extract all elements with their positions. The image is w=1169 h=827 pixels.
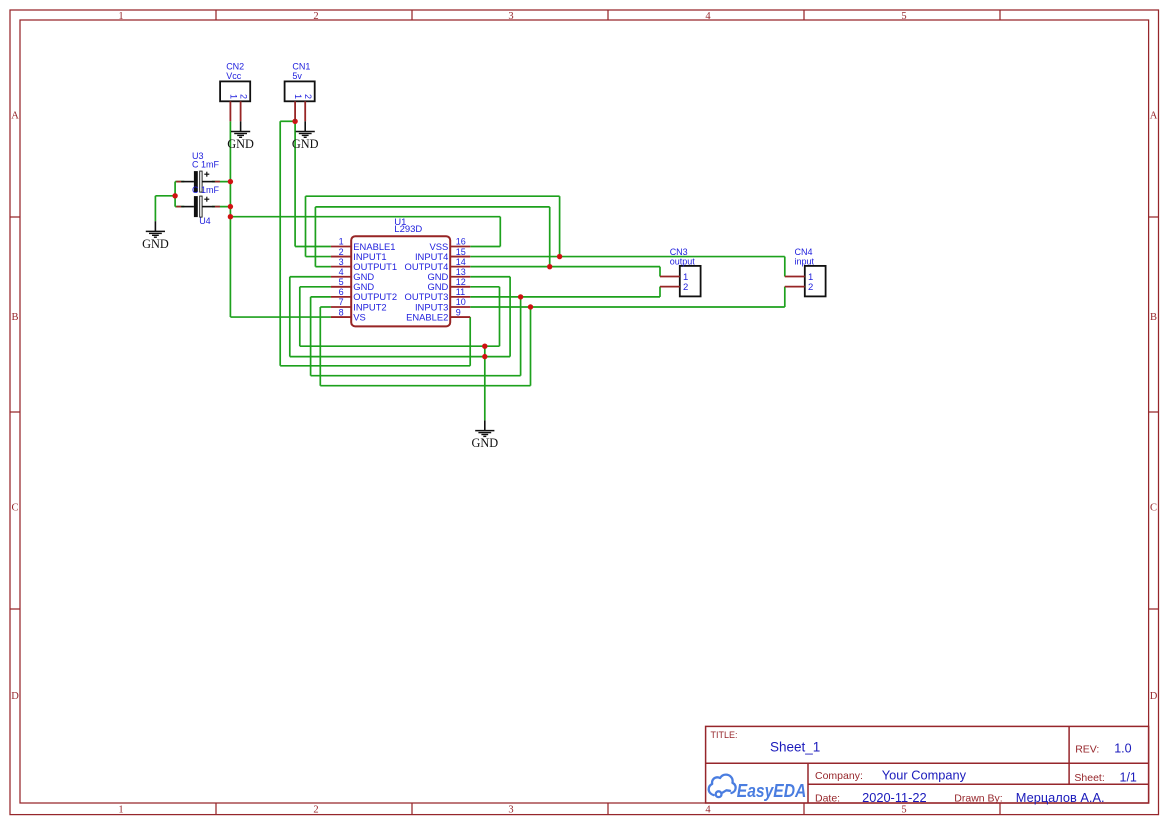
svg-text:9: 9 [456,307,461,317]
svg-text:3: 3 [339,257,344,267]
svg-text:CN2: CN2 [226,61,244,71]
svg-text:2: 2 [239,94,249,99]
svg-text:7: 7 [339,297,344,307]
svg-text:4: 4 [705,11,711,22]
svg-text:2: 2 [303,94,313,99]
svg-text:14: 14 [456,257,466,267]
svg-text:Company:: Company: [815,770,863,782]
svg-text:8: 8 [339,307,344,317]
svg-text:Мерцалов А.А.: Мерцалов А.А. [1016,790,1105,805]
svg-text:EasyEDA: EasyEDA [737,781,807,801]
svg-text:Vcc: Vcc [226,71,242,81]
svg-text:2: 2 [313,805,318,816]
svg-text:B: B [1150,312,1157,323]
svg-text:Drawn By:: Drawn By: [954,793,1002,805]
svg-text:D: D [11,691,19,702]
svg-text:Sheet_1: Sheet_1 [770,740,820,755]
svg-text:Date:: Date: [815,793,840,805]
svg-text:A: A [11,111,19,122]
svg-text:input: input [795,256,815,266]
svg-text:GND: GND [471,436,498,450]
svg-text:C: C [1150,503,1157,514]
svg-text:5v: 5v [292,71,302,81]
svg-text:2: 2 [339,247,344,257]
svg-text:1: 1 [228,94,238,99]
svg-text:GND: GND [142,237,169,251]
svg-text:5: 5 [339,277,344,287]
svg-text:2020-11-22: 2020-11-22 [862,790,927,805]
svg-text:C 1mF: C 1mF [192,160,220,170]
svg-text:Your Company: Your Company [882,768,967,783]
svg-text:CN1: CN1 [292,61,310,71]
svg-text:TITLE:: TITLE: [711,730,738,740]
svg-text:2: 2 [808,282,813,293]
svg-text:D: D [1150,691,1158,702]
svg-text:REV:: REV: [1075,743,1099,755]
svg-text:5: 5 [901,805,906,816]
svg-text:1: 1 [118,11,123,22]
svg-text:10: 10 [456,297,466,307]
svg-text:11: 11 [456,287,465,297]
svg-text:1: 1 [118,805,123,816]
svg-text:15: 15 [456,247,466,257]
svg-text:2: 2 [683,282,688,293]
svg-text:5: 5 [901,11,906,22]
svg-text:output: output [670,256,696,266]
svg-text:16: 16 [456,237,466,247]
svg-text:C 1mF: C 1mF [192,185,220,195]
svg-text:1: 1 [339,237,344,247]
svg-text:C: C [11,503,18,514]
svg-text:1.0: 1.0 [1114,742,1131,756]
svg-text:U4: U4 [199,216,211,226]
svg-text:2: 2 [313,11,318,22]
svg-text:ENABLE2: ENABLE2 [406,311,448,322]
svg-text:1: 1 [293,94,303,99]
svg-text:VS: VS [353,311,366,322]
svg-text:13: 13 [456,267,466,277]
svg-text:GND: GND [227,137,254,151]
svg-text:L293D: L293D [394,224,422,235]
svg-text:12: 12 [456,277,466,287]
svg-text:B: B [11,312,18,323]
svg-text:4: 4 [705,805,711,816]
svg-text:GND: GND [292,137,319,151]
svg-text:3: 3 [508,11,513,22]
svg-text:A: A [1150,111,1158,122]
svg-text:1/1: 1/1 [1120,770,1137,784]
svg-text:3: 3 [508,805,513,816]
svg-text:4: 4 [339,267,344,277]
svg-text:6: 6 [339,287,344,297]
svg-text:Sheet:: Sheet: [1074,772,1104,784]
